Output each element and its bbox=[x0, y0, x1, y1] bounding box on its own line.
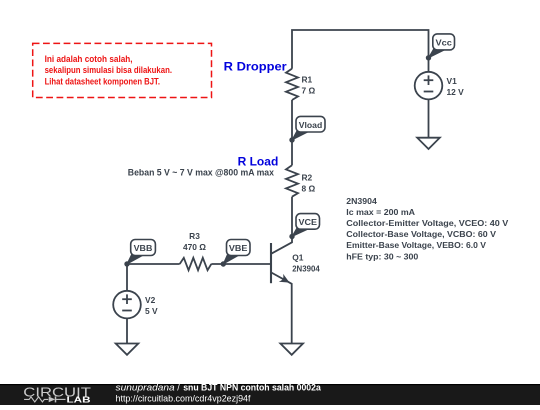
svg-text:LAB: LAB bbox=[67, 395, 91, 404]
node VBB dot bbox=[124, 261, 129, 266]
svg-text:2N3904: 2N3904 bbox=[346, 196, 377, 206]
svg-text:Collector-Base Voltage, VCBO:: Collector-Base Voltage, VCBO: 60 V bbox=[346, 229, 496, 239]
svg-text:Beban 5 V ~ 7 V max @800 mA ma: Beban 5 V ~ 7 V max @800 mA max bbox=[128, 167, 274, 177]
ground V2 bbox=[116, 344, 139, 355]
node VCE label bbox=[292, 228, 308, 237]
wire VBB to V2 bbox=[126, 264, 128, 291]
node VBE label bbox=[223, 254, 238, 264]
node VBB label bbox=[127, 254, 143, 264]
svg-text:V1: V1 bbox=[447, 76, 458, 86]
svg-text:Ini adalah cotoh salah,: Ini adalah cotoh salah, bbox=[45, 54, 133, 64]
node Vcc label bbox=[429, 48, 445, 58]
wire R1 to R2 bbox=[291, 100, 293, 165]
svg-text:Collector-Emitter Voltage, VCE: Collector-Emitter Voltage, VCEO: 40 V bbox=[346, 218, 508, 228]
svg-text:R1: R1 bbox=[302, 75, 313, 85]
wire V1 to ground bbox=[428, 99, 430, 137]
annotation red dashed box bbox=[33, 43, 212, 97]
resistor R2 bbox=[286, 165, 298, 196]
transistor Q1 collector lead bbox=[272, 237, 293, 254]
svg-text:Ic max = 200 mA: Ic max = 200 mA bbox=[346, 207, 415, 217]
svg-text:VBB: VBB bbox=[134, 243, 153, 253]
svg-text:2N3904: 2N3904 bbox=[292, 264, 320, 274]
footer logo resistor-diode glyph bbox=[24, 397, 48, 402]
svg-text:sekalipun simulasi bisa dilaku: sekalipun simulasi bisa dilakukan. bbox=[45, 65, 172, 75]
svg-text:VCE: VCE bbox=[299, 217, 318, 227]
svg-text:Vcc: Vcc bbox=[436, 38, 453, 48]
svg-text:Q1: Q1 bbox=[292, 252, 304, 262]
node Vcc dot bbox=[426, 55, 431, 60]
transistor Q1 base bar bbox=[270, 243, 272, 283]
transistor Q1 emitter arrow bbox=[281, 276, 288, 282]
node Vload label bbox=[292, 130, 308, 140]
wire VBB to R3 bbox=[127, 263, 180, 265]
ground V1 bbox=[417, 138, 440, 149]
svg-text:R2: R2 bbox=[302, 172, 313, 182]
node VBE dot bbox=[221, 261, 226, 266]
svg-text:sunupradana: sunupradana bbox=[116, 383, 175, 393]
svg-text:V2: V2 bbox=[145, 295, 156, 305]
ground Q1 emitter bbox=[280, 344, 303, 355]
svg-text:http://circuitlab.com/cdr4vp2e: http://circuitlab.com/cdr4vp2ezj94f bbox=[116, 393, 252, 403]
svg-text:R3: R3 bbox=[189, 231, 200, 241]
wire R2 to collector bbox=[291, 197, 293, 237]
svg-text:5 V: 5 V bbox=[145, 306, 158, 316]
wire top rail Vcc bbox=[292, 30, 429, 72]
svg-text:470 Ω: 470 Ω bbox=[183, 242, 206, 252]
svg-text:snu BJT NPN contoh salah 0002a: snu BJT NPN contoh salah 0002a bbox=[183, 383, 321, 393]
voltage source V2 bbox=[113, 291, 141, 319]
svg-text:8 Ω: 8 Ω bbox=[302, 183, 316, 193]
transistor Q1 emitter lead bbox=[272, 273, 292, 344]
svg-text:Emitter-Base Voltage, VEBO: 6.: Emitter-Base Voltage, VEBO: 6.0 V bbox=[346, 240, 486, 250]
svg-text:Vload: Vload bbox=[299, 120, 323, 130]
svg-text:R Dropper: R Dropper bbox=[224, 60, 287, 74]
svg-text:Lihat datasheet komponen BJT.: Lihat datasheet komponen BJT. bbox=[45, 76, 160, 86]
resistor R1 bbox=[286, 69, 298, 100]
node VCE dot bbox=[289, 234, 294, 239]
wire R3 to base bbox=[211, 263, 271, 265]
svg-text:7 Ω: 7 Ω bbox=[302, 86, 316, 96]
svg-text:hFE typ: 30 ~ 300: hFE typ: 30 ~ 300 bbox=[346, 251, 418, 261]
wire V2 to ground bbox=[126, 318, 128, 343]
resistor R3 bbox=[180, 258, 212, 270]
voltage source V1 bbox=[415, 72, 443, 100]
node Vload dot bbox=[289, 137, 294, 142]
footer bar bbox=[0, 384, 540, 405]
svg-text:12 V: 12 V bbox=[447, 87, 465, 97]
svg-text:VBE: VBE bbox=[229, 243, 248, 253]
